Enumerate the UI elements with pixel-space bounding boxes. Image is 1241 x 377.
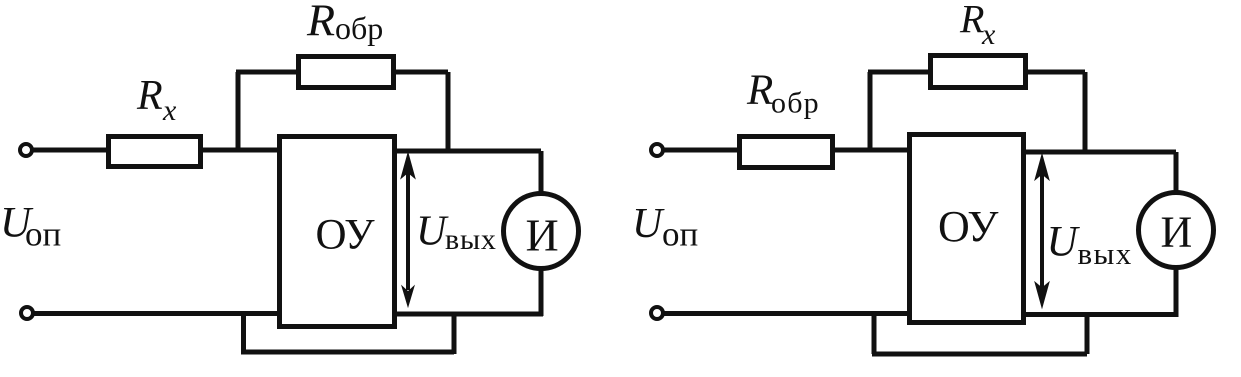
wire meter bottom vertical (circuit 2) xyxy=(1174,265,1179,317)
svg-text:R: R xyxy=(306,0,335,46)
resistor R_obr body (circuit 1) xyxy=(299,57,394,88)
svg-text:x: x xyxy=(162,94,177,127)
svg-text:обр: обр xyxy=(771,87,820,120)
arrow U_vyh double-headed (circuit 2) xyxy=(1036,156,1049,307)
terminal left-top (circuit 1) xyxy=(20,144,32,156)
svg-text:ОУ: ОУ xyxy=(938,202,999,251)
wire bottom loop left vertical (circuit 2) xyxy=(872,314,877,354)
wire input left (circuit 1) xyxy=(33,148,108,153)
svg-text:И: И xyxy=(1161,208,1193,257)
wire meter top vertical (circuit 1) xyxy=(539,151,544,196)
svg-text:И: И xyxy=(526,210,559,261)
terminal left-bottom (circuit 2) xyxy=(651,307,663,319)
wire meter top vertical (circuit 2) xyxy=(1174,152,1179,195)
wire feedback right vertical (circuit 1) xyxy=(446,72,451,151)
svg-text:R: R xyxy=(746,67,773,114)
wire bottom rail (circuit 2) xyxy=(664,311,907,316)
svg-text:оп: оп xyxy=(25,215,61,254)
terminal left-bottom (circuit 1) xyxy=(21,307,33,319)
wire output bottom (circuit 2) xyxy=(1026,312,1178,317)
wire output top (circuit 2) xyxy=(1026,150,1176,155)
wire bottom loop horizontal (circuit 2) xyxy=(872,352,1087,357)
svg-text:R: R xyxy=(136,73,163,119)
wire resistor to op-amp (circuit 1) xyxy=(203,148,277,153)
svg-text:x: x xyxy=(981,18,996,51)
svg-text:вых: вых xyxy=(445,223,497,256)
wire feedback top left (circuit 2) xyxy=(868,70,930,75)
meter I circle (circuit 1) xyxy=(504,194,579,269)
wire bottom loop right vertical (circuit 2) xyxy=(1085,315,1090,355)
wire bottom loop right vertical (circuit 1) xyxy=(452,314,457,354)
wire feedback left vertical (circuit 2) xyxy=(868,72,873,150)
svg-text:оп: оп xyxy=(662,215,698,254)
wire bottom rail (circuit 1) xyxy=(33,311,277,316)
svg-text:U: U xyxy=(1047,219,1081,266)
svg-text:U: U xyxy=(632,201,665,247)
wire input left (circuit 2) xyxy=(664,148,739,153)
wire feedback top right (circuit 2) xyxy=(1026,70,1085,75)
wire feedback top right (circuit 1) xyxy=(394,70,448,75)
op-amp U1 box (circuit 1) xyxy=(280,137,395,327)
arrow U_vyh double-headed (circuit 1) xyxy=(402,154,415,306)
resistor R_obr body (circuit 2) xyxy=(740,137,833,168)
wire output bottom (circuit 1) xyxy=(395,312,543,317)
svg-text:вых: вых xyxy=(1078,236,1133,271)
svg-text:R: R xyxy=(959,0,984,42)
wire bottom loop left vertical (circuit 1) xyxy=(241,314,246,352)
meter I circle (circuit 2) xyxy=(1139,193,1214,268)
wire bottom loop horizontal (circuit 1) xyxy=(241,350,454,355)
resistor R_x body (circuit 2) xyxy=(931,56,1026,88)
svg-text:обр: обр xyxy=(335,10,383,46)
terminal left-top (circuit 2) xyxy=(651,144,663,156)
wire resistor to op-amp (circuit 2) xyxy=(833,148,907,153)
svg-text:ОУ: ОУ xyxy=(316,212,376,259)
wire feedback right vertical (circuit 2) xyxy=(1083,72,1088,152)
op-amp U2 box (circuit 2) xyxy=(910,135,1024,323)
wire feedback top left (circuit 1) xyxy=(236,70,298,75)
wire output top (circuit 1) xyxy=(397,149,541,154)
wire meter bottom vertical (circuit 1) xyxy=(539,266,544,316)
wire feedback left vertical (circuit 1) xyxy=(236,72,241,150)
resistor R_x body (circuit 1) xyxy=(109,137,201,167)
